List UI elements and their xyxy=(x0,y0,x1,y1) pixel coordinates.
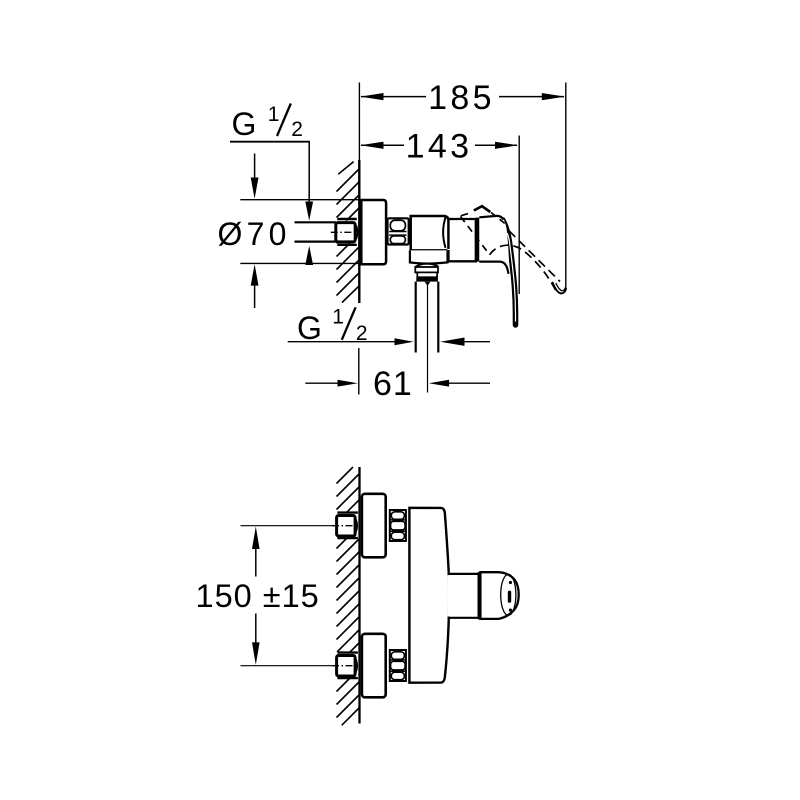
dia 70 upper arrow xyxy=(254,154,256,180)
knob marker bar xyxy=(508,591,511,603)
pipe spout mark xyxy=(425,282,431,286)
mixer body (front view) xyxy=(409,508,449,683)
lever blade white thread xyxy=(507,233,515,322)
wall hatching (front view) xyxy=(337,467,360,725)
svg-text:1: 1 xyxy=(332,305,344,328)
G1/2 lower leader line left xyxy=(288,341,396,343)
150 dimension lower arrowhead xyxy=(252,642,260,665)
wall hatching (side view) xyxy=(337,162,360,303)
svg-text:G: G xyxy=(232,106,257,142)
dimension 185 left arrowhead xyxy=(360,93,383,100)
143 right extension line xyxy=(518,136,520,295)
dimension 185 line xyxy=(361,96,426,98)
upper centerline / 150 extension xyxy=(241,525,333,527)
cartridge black band xyxy=(476,218,480,262)
svg-text:143: 143 xyxy=(406,128,473,166)
svg-text:Ø70: Ø70 xyxy=(218,216,291,252)
lower centerline / 150 extension xyxy=(241,665,333,667)
upper escutcheon (front view) xyxy=(362,494,386,558)
dimension 143 right arrowhead xyxy=(495,142,518,149)
neck white mask xyxy=(448,575,478,617)
body lower band xyxy=(410,250,448,263)
body end arc xyxy=(443,217,446,248)
nut chamfer arc xyxy=(356,226,357,239)
lever cap top edge xyxy=(479,216,503,220)
upper union nut xyxy=(337,516,356,537)
white mask for supply pipe over hatching xyxy=(294,221,358,244)
neck bottom line xyxy=(448,617,479,619)
dashed lever up-position edge A xyxy=(461,217,490,255)
dimension 143 left arrowhead xyxy=(360,142,383,149)
white mask upper mount row xyxy=(330,512,359,539)
lever handle blade xyxy=(503,220,516,325)
wall line / left extension line (side view) xyxy=(358,83,360,162)
dimension 143 line xyxy=(361,144,404,146)
svg-text:150 ±15: 150 ±15 xyxy=(196,578,320,614)
150 dimension line lower xyxy=(255,614,257,645)
G1/2 leader vertical line xyxy=(308,142,310,203)
supply flange lines at wall xyxy=(337,218,357,220)
outlet black collar xyxy=(416,277,438,281)
dia 70 lower arrow xyxy=(251,264,259,285)
supply pipe outline xyxy=(295,221,337,223)
lever up-position tip chevron xyxy=(474,206,491,212)
dashed lever extended-position edge D xyxy=(490,245,557,292)
outlet adapter ring 2 xyxy=(417,272,437,277)
svg-text:2: 2 xyxy=(291,118,303,141)
knob marker dots xyxy=(509,581,512,584)
G1/2 up arrowhead to pipe xyxy=(305,246,313,265)
upper nut chamfer arc xyxy=(356,520,357,533)
150 dimension line upper xyxy=(255,548,257,577)
body bottom line xyxy=(410,249,448,251)
lever cap fill xyxy=(479,216,509,261)
G1/2 lower leader line right xyxy=(464,341,491,343)
outlet dome xyxy=(415,263,438,267)
lower escutcheon (front view) xyxy=(362,634,386,698)
svg-text:61: 61 xyxy=(373,365,413,403)
61 wall extension line xyxy=(358,348,360,395)
supply union nut xyxy=(336,223,355,242)
upper S-union threads xyxy=(390,510,406,541)
61 dimension left xyxy=(305,382,338,384)
dashed lever up-position edge B xyxy=(491,213,508,227)
dashed lever up-position tip shallow dash xyxy=(461,214,468,216)
knob black band xyxy=(478,572,481,619)
dia 70 bottom extent line xyxy=(240,262,358,264)
lower S-union threads xyxy=(390,650,406,681)
61 dimension right xyxy=(429,380,449,387)
shower pipe centerline / 61 extension xyxy=(427,285,429,393)
lower union nut xyxy=(337,656,356,677)
dashed lever extended-position edge C xyxy=(509,231,560,282)
G1/2 down arrowhead to pipe xyxy=(305,202,313,221)
G1/2 leader underline xyxy=(230,141,310,143)
svg-text:185: 185 xyxy=(428,79,495,117)
svg-text:1: 1 xyxy=(268,103,280,126)
body neck section (side view) xyxy=(449,219,476,261)
dimension 185 right arrowhead xyxy=(542,93,565,100)
lower flange lines at wall xyxy=(337,651,358,653)
neck top line xyxy=(448,573,479,575)
knob end-cap ellipse xyxy=(501,574,516,615)
valve body main cylinder (side view) xyxy=(411,216,449,251)
G1/2 lower right arrowhead xyxy=(440,338,464,346)
escutcheon (side view) xyxy=(361,200,386,264)
extended lever tip hook xyxy=(552,282,566,294)
knob (front view) xyxy=(480,572,518,619)
lever cap bottom edge and corner xyxy=(479,262,508,274)
supply centerline (dash-dot) xyxy=(331,231,360,233)
white mask lower mount row xyxy=(330,652,359,679)
G1/2 lower left arrowhead xyxy=(395,338,414,345)
svg-text:G: G xyxy=(297,310,322,346)
185 right extension line xyxy=(565,83,567,292)
outlet adapter ring 1 xyxy=(415,267,438,272)
150 dimension upper arrowhead xyxy=(252,527,260,550)
upper flange lines at wall xyxy=(337,511,358,513)
wall line (front view) xyxy=(358,467,360,724)
lower nut chamfer arc xyxy=(356,660,357,673)
dia 70 top extent line xyxy=(240,199,358,201)
hex nipple (side view) xyxy=(388,218,409,244)
shower pipe walls xyxy=(415,282,417,353)
